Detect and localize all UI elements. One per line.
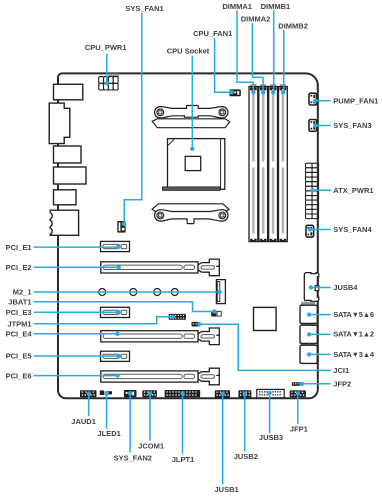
svg-text:JCOM1: JCOM1 [138, 441, 164, 450]
board right edge over ATX_PWR1 [317, 163, 319, 220]
connector SATA 3/4 [300, 345, 317, 363]
connector JTPM1 [169, 314, 186, 320]
CPU top bracket left screw [157, 109, 164, 116]
connector CPU_PWR1 (8-pin) [99, 77, 118, 90]
svg-text:M2_1: M2_1 [13, 288, 32, 297]
connector JAUD1 [80, 390, 97, 397]
PCIe x16 slot PCI_E6 [101, 368, 220, 385]
M.2 slot connector M2_1 [216, 280, 225, 304]
svg-text:CPU Socket: CPU Socket [167, 46, 210, 55]
svg-text:SYS_FAN4: SYS_FAN4 [333, 225, 372, 234]
connector PUMP_FAN1 [309, 93, 317, 105]
connector JUSB4 (USB 3.2 Gen1) [304, 273, 319, 302]
wire DIMMA2 callout [252, 23, 265, 95]
svg-text:CPU_FAN1: CPU_FAN1 [193, 29, 232, 38]
CPU socket lid square [185, 156, 201, 170]
wire SYS_FAN2 callout [128, 391, 132, 453]
wire CPU_FAN1 callout [215, 38, 234, 94]
svg-text:DIMMA2: DIMMA2 [241, 15, 271, 24]
svg-text:JLPT1: JLPT1 [172, 455, 195, 464]
svg-text:DIMMB2: DIMMB2 [278, 21, 308, 30]
wire SYS_FAN4 callout [308, 227, 331, 231]
connector ATX_PWR1 (24-pin) [306, 163, 319, 218]
connector SATA 1/2 [300, 325, 317, 343]
CPU socket AM4 [168, 139, 225, 190]
PCIe x16 slot PCI_E2 [101, 259, 220, 276]
connector JUSB1 [215, 390, 230, 397]
wire PCI_E4 callout [34, 332, 120, 336]
CPU socket bottom bar [162, 187, 220, 191]
connector JFP1 [290, 390, 306, 397]
DIMM slot DIMMA2 [259, 84, 268, 241]
wire JAUD1 callout [87, 391, 91, 416]
wire SYS_FAN3 callout [313, 123, 330, 127]
SATA stack joints [301, 323, 315, 325]
svg-text:JUSB2: JUSB2 [234, 452, 258, 461]
svg-text:CPU_PWR1: CPU_PWR1 [85, 43, 127, 52]
CPU top retention bracket base [152, 119, 230, 128]
CPU socket inner right line [220, 139, 222, 189]
rear I/O port block 4 [54, 167, 87, 184]
board outline [58, 73, 318, 398]
wire SATA12 callout [307, 332, 331, 336]
connector JCI1 [192, 322, 199, 327]
connector JFP2 [292, 382, 300, 386]
connector SATA 5/6 [300, 305, 317, 323]
svg-text:JFP2: JFP2 [333, 380, 351, 389]
connector CPU_PWR1 shadow tab [109, 74, 120, 78]
DIMM slot DIMMA1 [249, 84, 258, 241]
CPU bottom retention bracket body [155, 210, 228, 224]
svg-text:SYS_FAN2: SYS_FAN2 [114, 454, 152, 463]
svg-text:PCI_E4: PCI_E4 [6, 330, 33, 339]
wire JLPT1 callout [180, 391, 184, 454]
svg-text:SYS_FAN1: SYS_FAN1 [125, 4, 163, 13]
connector JCOM1 [142, 390, 157, 397]
svg-text:SATA▼3▲4: SATA▼3▲4 [333, 350, 375, 359]
wire DIMMB1 callout [271, 11, 275, 95]
wire PCI_E5 callout [34, 354, 121, 358]
wire SYS_FAN1 callout [122, 13, 142, 227]
wire ATX_PWR1 callout [310, 188, 330, 192]
wire JLED1 callout [104, 391, 108, 428]
wire JCI1 callout [197, 322, 331, 370]
wire M2_1 callout [34, 290, 222, 294]
wire CPU_PWR1 callout [105, 54, 109, 86]
PCIe x1 slot PCI_E3 [101, 307, 130, 317]
connector SYS_FAN4 [306, 225, 314, 237]
wire JBAT1 callout [34, 302, 217, 314]
wire JTPM1 callout [34, 315, 176, 324]
CPU bottom retention bracket top plate [152, 204, 229, 213]
svg-text:JUSB4: JUSB4 [333, 283, 358, 292]
DIMM slot DIMMB1 [269, 84, 278, 241]
wire PCI_E1 callout [34, 245, 121, 249]
svg-text:ATX_PWR1: ATX_PWR1 [333, 186, 373, 195]
svg-text:PCI_E2: PCI_E2 [6, 263, 32, 272]
svg-text:PCI_E5: PCI_E5 [6, 352, 32, 361]
wire JFP2 callout [300, 382, 331, 386]
wire JUSB2 callout [243, 392, 247, 452]
svg-text:JFP1: JFP1 [290, 424, 308, 433]
wire JUSB1 callout [221, 392, 225, 485]
wire JFP1 callout [296, 391, 300, 424]
wire SATA56 callout [307, 312, 331, 316]
connector CPU_FAN1 [230, 89, 241, 96]
CPU socket corner notch [168, 139, 174, 145]
wire JUSB4 callout [309, 285, 331, 289]
connector SYS_FAN3 [309, 120, 317, 132]
svg-text:JTPM1: JTPM1 [7, 320, 31, 329]
svg-text:SYS_FAN3: SYS_FAN3 [333, 121, 371, 130]
wire DIMMA1 callout [237, 11, 256, 95]
svg-text:PCI_E6: PCI_E6 [6, 371, 32, 380]
svg-text:JAUD1: JAUD1 [71, 417, 96, 426]
svg-text:DIMMA1: DIMMA1 [222, 2, 252, 11]
wire CPU Socket callout [190, 56, 194, 151]
connector JLED1 [100, 390, 112, 395]
svg-text:JCI1: JCI1 [333, 366, 349, 375]
rear I/O port block 3 [54, 146, 82, 163]
wire JUSB3 callout [267, 391, 271, 433]
svg-text:JBAT1: JBAT1 [8, 297, 31, 306]
rear I/O audio jack block [50, 210, 78, 235]
svg-text:PCI_E3: PCI_E3 [6, 308, 32, 317]
svg-text:JUSB1: JUSB1 [215, 485, 239, 494]
CPU top bracket right screw [219, 109, 226, 116]
M.2 standoff holes [99, 289, 179, 296]
chipset [254, 307, 277, 330]
CPU bottom bracket left screw [157, 212, 164, 219]
CPU top retention bracket body [155, 106, 228, 119]
wire DIMMB2 callout [281, 30, 285, 95]
wire JCOM1 callout [148, 391, 152, 440]
PCIe x1 slot PCI_E1 [101, 241, 130, 251]
rear I/O port block 2 [49, 103, 70, 143]
connector JUSB2 [238, 390, 251, 397]
PCIe x1 slot PCI_E5 [101, 351, 130, 361]
svg-text:JUSB3: JUSB3 [259, 433, 283, 442]
CPU bottom bracket right screw [219, 212, 226, 219]
svg-text:DIMMB1: DIMMB1 [261, 2, 291, 11]
connector JUSB3 [257, 389, 284, 397]
svg-text:PUMP_FAN1: PUMP_FAN1 [333, 96, 378, 105]
wire PCI_E6 callout [34, 373, 120, 377]
PCIe x16 slot PCI_E4 [101, 328, 220, 345]
svg-text:JLED1: JLED1 [98, 429, 121, 438]
connector SYS_FAN1 [117, 221, 125, 233]
svg-text:SATA▼5▲6: SATA▼5▲6 [333, 310, 374, 319]
wire PCI_E3 callout [34, 310, 121, 314]
rear I/O port block 1 [54, 84, 83, 100]
svg-text:SATA▼1▲2: SATA▼1▲2 [333, 330, 374, 339]
wire SATA34 callout [307, 352, 331, 356]
connector SYS_FAN2 [124, 390, 137, 397]
connector JLPT1 [165, 390, 201, 397]
connector JBAT1 [211, 311, 221, 317]
rear I/O port block 5 [54, 190, 77, 205]
svg-text:PCI_E1: PCI_E1 [6, 243, 32, 252]
wire PCI_E2 callout [34, 265, 121, 269]
wire PUMP_FAN1 callout [313, 99, 330, 103]
DIMM slot DIMMB2 [279, 84, 288, 241]
